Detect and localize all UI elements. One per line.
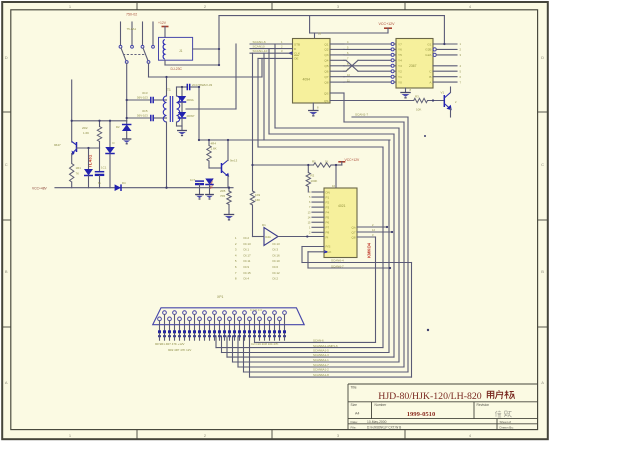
net label SCAN6-7 <box>331 264 344 268</box>
svg-text:Revision: Revision <box>477 403 490 407</box>
svg-text:2R2: 2R2 <box>82 126 88 130</box>
svg-text:1C7: 1C7 <box>190 178 196 182</box>
svg-text:1.6K: 1.6K <box>83 131 89 135</box>
wire top rail to 2367 <box>219 15 444 17</box>
svg-text:SCAN6A1-AMP1-6: SCAN6A1-AMP1-6 <box>313 344 338 348</box>
svg-text:75-0A1: 75-0A1 <box>127 27 137 31</box>
svg-text:9R 9R1 4R7 47K +12V: 9R 9R1 4R7 47K +12V <box>155 342 185 346</box>
svg-text:DN: DN <box>326 190 330 194</box>
svg-text:IC4A: IC4A <box>265 235 271 239</box>
svg-text:2R5: 2R5 <box>220 189 226 193</box>
labels below RC array <box>155 342 279 352</box>
wire SCAN bus 6 <box>244 117 409 372</box>
resistor 2R2 1.6K <box>82 121 102 148</box>
svg-text:B: B <box>541 269 544 274</box>
wire VCC to 4021 pin16 <box>335 165 337 188</box>
zener diode 2D6A <box>178 87 194 102</box>
svg-text:SCAN1-10: SCAN1-10 <box>253 49 268 53</box>
svg-text:Y1: Y1 <box>398 75 402 79</box>
wire SCAN bus 1 STB net <box>233 44 400 362</box>
svg-text:B: B <box>5 269 8 274</box>
svg-text:SCAN1-7: SCAN1-7 <box>355 113 368 117</box>
svg-text:Q3: Q3 <box>324 53 328 57</box>
svg-text:R2: R2 <box>311 174 315 178</box>
DI net table <box>235 236 280 281</box>
net label KMKO4 red <box>367 242 372 258</box>
wire SCAN bus 7 PS net <box>250 263 412 378</box>
svg-text:100K: 100K <box>311 179 318 183</box>
wire node to switch riser <box>186 108 236 110</box>
svg-text:Q2: Q2 <box>324 48 328 52</box>
capacitor 3C3 56V-103 <box>127 91 167 103</box>
svg-text:C: C <box>541 162 544 167</box>
svg-text:Q1: Q1 <box>324 42 328 46</box>
svg-text:B: B <box>429 75 431 79</box>
wire collector bus y140 <box>199 139 390 141</box>
svg-text:DI.10: DI.10 <box>273 259 281 263</box>
pin 16 label 4094 <box>318 32 322 36</box>
wire STB riser <box>235 44 237 109</box>
svg-text:File:: File: <box>351 426 357 430</box>
svg-text:Q8: Q8 <box>324 80 328 84</box>
svg-text:C2 C16 2C8 104 47K: C2 C16 2C8 104 47K <box>251 342 279 346</box>
title block <box>348 384 538 430</box>
net labels SCAN staircase <box>313 339 338 378</box>
wire relay contact out <box>193 48 219 50</box>
resistor 4R4 1.6K <box>207 140 217 168</box>
svg-text:4021: 4021 <box>338 204 346 208</box>
wire VCC rail y33 <box>310 33 388 39</box>
svg-text:Q4: Q4 <box>324 59 328 63</box>
svg-text:4094: 4094 <box>303 78 311 82</box>
wire base line V2 <box>77 147 100 149</box>
svg-text:G1: G1 <box>427 42 431 46</box>
svg-text:SCAN6A1-7: SCAN6A1-7 <box>313 363 329 367</box>
svg-text:P1: P1 <box>326 195 330 199</box>
wire switch pole 2 down <box>148 63 150 77</box>
net VCC+48V rail <box>32 186 233 190</box>
ground below 4094 <box>308 103 319 116</box>
svg-text:DI.11: DI.11 <box>244 259 251 263</box>
svg-text:A4: A4 <box>355 411 359 415</box>
pin numbers 4021 outputs <box>372 223 375 237</box>
wire mains riser to top rail <box>218 16 220 65</box>
wire op-amp output to P8 <box>278 236 324 238</box>
resistor 1K9 16K on feedback <box>250 53 260 236</box>
svg-text:D1: D1 <box>262 223 266 227</box>
svg-text:16K: 16K <box>255 198 260 202</box>
svg-text:V1: V1 <box>441 90 445 94</box>
wire upper rail <box>72 80 127 142</box>
svg-text:XP1: XP1 <box>217 295 224 299</box>
svg-text:QS: QS <box>324 91 328 95</box>
svg-text:P4: P4 <box>326 210 330 214</box>
wire mains horizontal <box>149 58 263 77</box>
svg-text:R3: R3 <box>415 95 419 99</box>
zener diode 1D5 to ground <box>116 121 131 144</box>
shunt reference TL431 second <box>205 178 214 199</box>
wire SCAN bus 8 Q8 net <box>255 237 376 342</box>
svg-text:VCC+12V: VCC+12V <box>379 22 396 26</box>
svg-text:SCAN6A1-8: SCAN6A1-8 <box>313 373 329 377</box>
wire QS-prime to driver resistor <box>330 100 414 102</box>
resistor 2R5 to ground <box>220 188 234 220</box>
wire SCAN bus 3 CLK net <box>222 53 390 352</box>
svg-text:STB: STB <box>294 42 300 46</box>
svg-text:1K9: 1K9 <box>255 193 261 197</box>
svg-text:KMKO4: KMKO4 <box>367 242 372 258</box>
wire SCAN bus 5 QS net <box>238 93 404 367</box>
wire relay coil to node <box>165 60 219 65</box>
resistor 10K driver <box>414 95 445 112</box>
transistor V2 9647 <box>54 142 77 164</box>
diode 1D3 <box>105 121 115 188</box>
svg-text:DI.1: DI.1 <box>244 248 250 252</box>
svg-text:Drawn By:: Drawn By: <box>500 426 514 430</box>
svg-text:2DW7: 2DW7 <box>187 114 195 118</box>
ground below 2367 <box>400 88 411 98</box>
svg-text:P8: P8 <box>326 231 330 235</box>
wire 4021 PS loop <box>302 247 412 263</box>
wire OE stub <box>258 57 293 59</box>
svg-text:Date:: Date: <box>351 420 359 424</box>
svg-text:SCAN6-7: SCAN6-7 <box>331 264 344 268</box>
junction dots <box>71 48 231 189</box>
svg-text:Y0: Y0 <box>398 80 402 84</box>
svg-text:D: D <box>541 55 544 60</box>
wire switch pole 1 down <box>126 63 128 120</box>
svg-text:SCAN6A1-1: SCAN6A1-1 <box>313 358 329 362</box>
wire 4021 Q7 out <box>357 231 392 233</box>
svg-text:T1: T1 <box>167 88 171 92</box>
svg-text:C C C C C: C C C C C <box>250 308 262 312</box>
svg-text:DJ-23C: DJ-23C <box>171 67 183 71</box>
junction dot stray <box>424 135 429 331</box>
wire 4021 Qh out <box>357 226 387 228</box>
svg-text:SCAN1-6: SCAN1-6 <box>253 40 266 44</box>
svg-text:P6: P6 <box>326 221 330 225</box>
buffer IC U2 2367 <box>396 39 433 89</box>
net label SCAN1-6 pin1 <box>250 40 293 44</box>
transformer T1 <box>163 77 180 188</box>
svg-text:+12V: +12V <box>158 21 167 25</box>
svg-text:Q6: Q6 <box>324 70 328 74</box>
diode 1D4 on rail <box>115 181 126 191</box>
label transformer type 750-02 <box>126 13 137 17</box>
zener diode 2DW7 <box>178 103 195 127</box>
svg-text:SCAN6A1-2: SCAN6A1-2 <box>313 368 329 372</box>
svg-text:1999-0510: 1999-0510 <box>407 411 436 418</box>
svg-text:Q5: Q5 <box>324 64 328 68</box>
svg-text:DI.16: DI.16 <box>273 253 281 257</box>
svg-text:D: D <box>113 141 115 145</box>
svg-text:Y7: Y7 <box>398 42 402 46</box>
svg-text:DI.2: DI.2 <box>244 236 250 240</box>
svg-text:DI.13: DI.13 <box>273 242 281 246</box>
svg-text:Qh: Qh <box>351 225 355 229</box>
net label SCAN1-10 pin3 <box>250 49 293 53</box>
net label SCAN10 pin2 <box>250 45 293 49</box>
capacitor 1C7 <box>190 178 204 199</box>
transistor V3 9013 <box>222 140 238 188</box>
svg-text:DI.15: DI.15 <box>244 271 252 275</box>
svg-text:2367: 2367 <box>409 64 417 68</box>
svg-text:SCAN6A1-5: SCAN6A1-5 <box>313 349 329 353</box>
svg-text:CLK: CLK <box>294 52 301 56</box>
svg-text:Title: Title <box>351 385 357 389</box>
svg-text:Y4: Y4 <box>398 59 402 63</box>
svg-text:DI.17: DI.17 <box>244 253 252 257</box>
wire SCAN bus 4 OE net <box>216 58 383 347</box>
svg-text:2D6A: 2D6A <box>187 98 194 102</box>
svg-text:OE: OE <box>294 57 298 61</box>
svg-text:Q7: Q7 <box>324 75 328 79</box>
RC filter array below connector <box>158 315 286 341</box>
svg-text:56V-103: 56V-103 <box>137 113 148 117</box>
svg-text:Q7: Q7 <box>351 230 355 234</box>
svg-text:SCAN10: SCAN10 <box>253 45 265 49</box>
svg-text:D4: D4 <box>122 181 126 185</box>
resistor R1 <box>253 160 342 168</box>
svg-text:HJD-80/HJK-120/LH-820: HJD-80/HJK-120/LH-820 <box>378 391 482 402</box>
power +12V relay supply <box>158 21 169 37</box>
svg-text:VCC+12V: VCC+12V <box>345 158 361 162</box>
wire G1 riser <box>443 16 445 44</box>
capacitor 2C4 <box>177 83 213 90</box>
svg-text:Number: Number <box>375 403 388 407</box>
transistor V1 <box>441 87 458 117</box>
svg-text:P3: P3 <box>326 205 330 209</box>
wire SCAN bus 2 D net <box>227 49 394 358</box>
svg-text:DI.4: DI.4 <box>244 277 250 281</box>
svg-text:9647: 9647 <box>54 143 61 147</box>
svg-text:PI: PI <box>326 236 329 240</box>
svg-text:10-May-2000: 10-May-2000 <box>367 420 387 424</box>
svg-text:A: A <box>5 380 8 385</box>
svg-text:DI.2: DI.2 <box>273 277 279 281</box>
svg-text:2C4 56WkV-33: 2C4 56WkV-33 <box>192 83 213 87</box>
svg-text:QS: QS <box>324 99 328 103</box>
svg-text:G2B: G2B <box>425 48 431 52</box>
ground below T1 zeners <box>177 122 187 136</box>
wire 2C4 node down <box>198 87 200 140</box>
resistor R2 100K <box>306 165 317 192</box>
svg-text:D:\HJK80\KLP CXT.W B: D:\HJK80\KLP CXT.W B <box>367 426 401 430</box>
svg-text:Q8: Q8 <box>351 235 355 239</box>
svg-text:P2: P2 <box>326 200 330 204</box>
2367 right pins <box>433 42 462 84</box>
svg-text:Y5: Y5 <box>398 53 402 57</box>
svg-text:P5: P5 <box>326 216 330 220</box>
svg-text:9m13: 9m13 <box>230 159 238 163</box>
svg-text:SCAN-6: SCAN-6 <box>313 339 324 343</box>
wire 4021 Q8 out <box>357 236 376 238</box>
svg-text:1C1: 1C1 <box>101 166 107 170</box>
svg-text:DI.13: DI.13 <box>244 242 252 246</box>
svg-text:750-02: 750-02 <box>126 13 137 17</box>
capacitor 3C5 56V-103 <box>127 109 167 121</box>
svg-text:Y3: Y3 <box>398 64 402 68</box>
svg-text:9R2 4R7 47K 12V: 9R2 4R7 47K 12V <box>168 348 191 352</box>
svg-text:16: 16 <box>318 32 322 36</box>
svg-text:SCAN6-4: SCAN6-4 <box>331 259 344 263</box>
svg-text:Sheet of: Sheet of <box>500 420 512 424</box>
net label SCAN1.7 <box>355 113 368 117</box>
svg-text:DI.12: DI.12 <box>273 271 281 275</box>
svg-text:C: C <box>5 162 8 167</box>
svg-text:4R4: 4R4 <box>211 142 217 146</box>
svg-text:D2: D2 <box>116 125 120 129</box>
svg-text:10K: 10K <box>416 108 421 112</box>
svg-text:P/S: P/S <box>326 245 331 249</box>
svg-text:DI.3: DI.3 <box>273 248 279 252</box>
relay J1 <box>159 37 193 60</box>
wire top rail drop at 4094 <box>309 16 311 33</box>
svg-text:Y6: Y6 <box>398 48 402 52</box>
switch S1 <box>119 22 154 63</box>
connector XP1 <box>153 295 305 325</box>
op-amp D1 IC4A <box>262 223 278 246</box>
svg-text:Size: Size <box>351 403 358 407</box>
net label SCAN6-4 <box>331 259 344 263</box>
svg-text:A: A <box>541 380 544 385</box>
shift register IC U3 4021 <box>308 184 357 258</box>
svg-text:1R1: 1R1 <box>76 166 82 170</box>
svg-text:SCAN6A1-3: SCAN6A1-3 <box>313 353 329 357</box>
svg-text:7K5: 7K5 <box>220 194 226 198</box>
label DJ-23C <box>171 67 183 71</box>
shunt reference TL431 <box>84 148 93 188</box>
svg-text:DI.9: DI.9 <box>244 265 250 269</box>
power VCC+12V main <box>379 22 396 33</box>
svg-text:56V-103: 56V-103 <box>137 95 148 99</box>
svg-text:Y2: Y2 <box>398 70 402 74</box>
svg-text:VCC+48V: VCC+48V <box>32 186 48 190</box>
svg-text:D: D <box>5 55 8 60</box>
svg-text:J1: J1 <box>179 49 183 53</box>
svg-text:G2A: G2A <box>425 53 432 57</box>
wire base V3 <box>209 167 222 169</box>
power VCC+12V at R1 <box>338 158 360 165</box>
svg-text:7K: 7K <box>76 172 80 176</box>
resistor 1R1 7K <box>70 164 82 188</box>
capacitor 1C1 <box>95 148 107 188</box>
svg-text:P7: P7 <box>326 226 330 230</box>
op-amp IC U1 4094 <box>289 39 344 104</box>
wire op-amp input <box>253 236 265 238</box>
wire Q outputs to 2367 inputs <box>344 40 396 83</box>
svg-text:DI.6: DI.6 <box>273 265 279 269</box>
wire 4021 CLK loop <box>308 252 390 268</box>
